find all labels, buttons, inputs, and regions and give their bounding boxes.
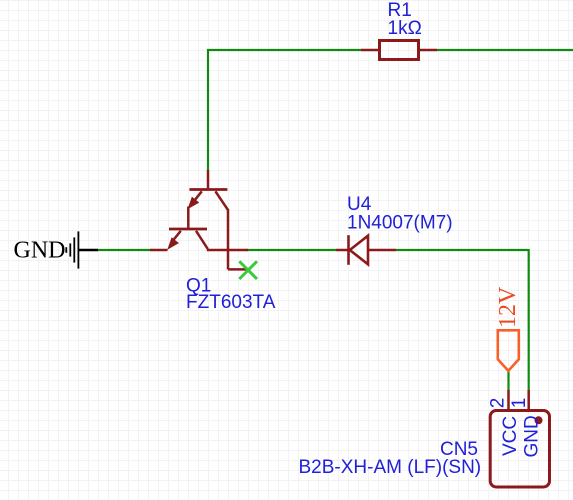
- Q1 collector lower diagonal: [196, 231, 208, 249]
- Q1 stub to no-connect: [228, 268, 248, 271]
- U4 anode pin: [336, 249, 349, 252]
- connector CN5: [490, 390, 549, 487]
- wire top-left horizontal (node to R1): [207, 49, 361, 51]
- resistor R1: [361, 41, 437, 60]
- wire vertical corner to CN5 pin 1: [528, 249, 530, 390]
- Q1 emitter pin: [150, 249, 168, 252]
- U4 cathode pin: [368, 249, 396, 252]
- transistor Q1 (darlington): [150, 170, 248, 269]
- U4 cathode bar: [347, 235, 350, 265]
- Q1 base bar upper: [189, 188, 227, 191]
- wire U4 to corner: [396, 249, 529, 251]
- svg-text:1: 1: [509, 398, 530, 409]
- CN5 body: [490, 411, 549, 488]
- ground symbol: [66, 231, 98, 268]
- svg-text:1N4007(M7): 1N4007(M7): [347, 213, 453, 234]
- no-connect X marker: [239, 261, 257, 279]
- wire top-right horizontal (R1 to right edge): [437, 49, 573, 51]
- CN5 pin 1 marker dot: [535, 416, 543, 424]
- Q1 emitter arrow upper: [188, 197, 200, 210]
- wire 12V flag to CN5 pin 2: [507, 370, 509, 390]
- svg-text:2: 2: [488, 398, 509, 409]
- Q1 emitter upper line: [194, 191, 202, 201]
- Q1 collector vertical: [227, 209, 230, 269]
- Q1 emitter arrow lower: [167, 237, 179, 250]
- svg-text:12V: 12V: [495, 286, 521, 328]
- Q1 emitter lower line: [174, 231, 181, 240]
- U4 triangle: [350, 236, 368, 265]
- Q1 internal emitter-base link: [187, 207, 190, 230]
- Q1 collector upper diagonal: [215, 191, 228, 210]
- svg-text:VCC: VCC: [500, 416, 521, 456]
- wire GND to Q1 emitter: [98, 249, 150, 251]
- Q1 base bar lower: [169, 228, 207, 231]
- Q1 base pin: [207, 170, 210, 188]
- svg-text:B2B-XH-AM (LF)(SN): B2B-XH-AM (LF)(SN): [299, 457, 482, 478]
- net flag 12V: [498, 330, 519, 371]
- wire Q1 collector to U4: [247, 249, 336, 251]
- svg-text:1kΩ: 1kΩ: [388, 18, 422, 39]
- Q1 collector pin: [207, 249, 248, 252]
- svg-text:GND: GND: [14, 238, 66, 264]
- svg-text:FZT603TA: FZT603TA: [186, 292, 276, 313]
- CN5 pin 1 stub: [527, 390, 530, 410]
- diode U4: [336, 235, 396, 265]
- svg-text:GND: GND: [521, 415, 542, 457]
- wire vertical to Q1 base: [207, 49, 209, 170]
- CN5 pin 2 stub: [507, 390, 510, 410]
